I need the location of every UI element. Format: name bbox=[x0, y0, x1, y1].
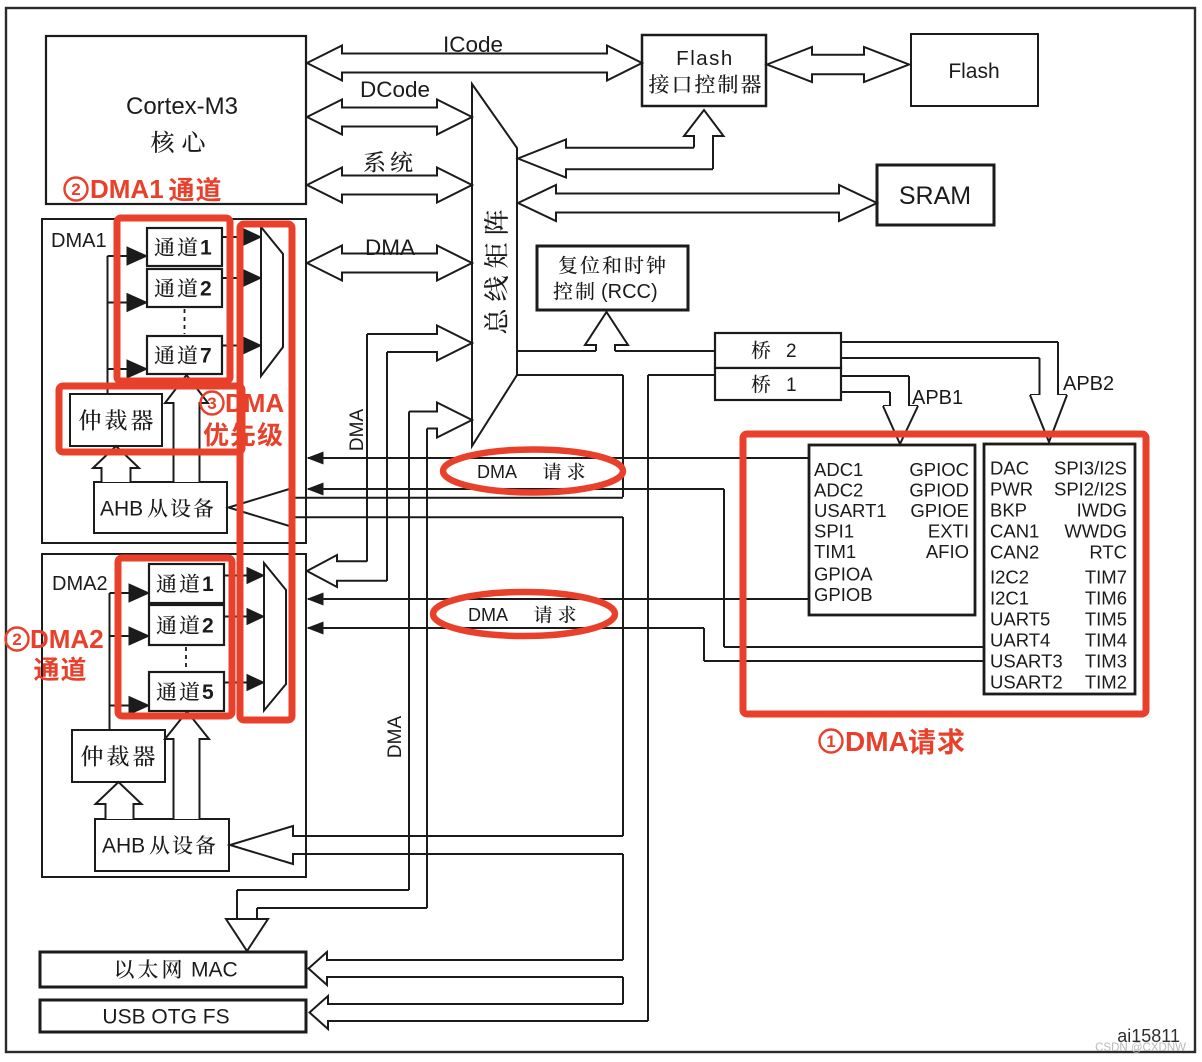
block USB OTG FS bbox=[40, 1000, 306, 1032]
svg-text:DMA2: DMA2 bbox=[30, 624, 104, 654]
dashed line DMA2 channels bbox=[185, 647, 187, 670]
block DMA1 bbox=[42, 219, 306, 543]
bus arrow DMA (DMA1 to bus matrix) bbox=[307, 246, 472, 281]
bridge2 to APB2 lines bbox=[841, 341, 1058, 343]
svg-text:DAC: DAC bbox=[990, 458, 1029, 479]
svg-text:2: 2 bbox=[202, 615, 214, 638]
svg-text:RTC: RTC bbox=[1089, 542, 1127, 563]
svg-text:5: 5 bbox=[202, 681, 214, 704]
svg-text:AFIO: AFIO bbox=[926, 541, 969, 562]
arrow AHB slave DMA2 to arbiter bbox=[96, 782, 142, 819]
svg-text:BKP: BKP bbox=[990, 500, 1027, 521]
svg-text:DMA: DMA bbox=[347, 409, 368, 452]
label bus matrix vertical bbox=[484, 210, 508, 333]
svg-text:DMA1: DMA1 bbox=[90, 174, 164, 204]
svg-text:7: 7 bbox=[200, 345, 212, 368]
bus arrow ICode bbox=[307, 46, 642, 81]
block AHB slave DMA1 bbox=[94, 482, 227, 533]
block DMA1 channel 1 bbox=[147, 228, 222, 266]
DMA1 arbiter trunk and channel arrows bbox=[107, 256, 109, 394]
svg-text:GPIOB: GPIOB bbox=[814, 584, 873, 605]
pipe bus matrix to Flash interface bbox=[518, 140, 713, 178]
pipe bus matrix to bridges bbox=[517, 350, 596, 352]
block DMA2 channel 5 bbox=[149, 672, 224, 711]
red label 2 DMA1 channels bbox=[65, 178, 88, 201]
block DMA1 channel 2 bbox=[147, 269, 222, 307]
svg-text:MAC: MAC bbox=[191, 959, 238, 982]
arrow AHB slave DMA1 to arbiter bbox=[93, 446, 139, 482]
svg-text:AHB: AHB bbox=[102, 835, 145, 858]
arrow into DMA2 right edge bbox=[307, 555, 387, 587]
svg-text:GPIOC: GPIOC bbox=[909, 459, 969, 480]
pipe Ethernet MAC to bus matrix (lower right arrow) bbox=[409, 403, 472, 438]
pipe down from bridge pipe (to AHB slaves, MAC, USB) bbox=[622, 375, 624, 497]
svg-text:UART4: UART4 bbox=[990, 630, 1050, 651]
svg-text:1: 1 bbox=[786, 375, 797, 396]
svg-text:(RCC): (RCC) bbox=[601, 281, 658, 303]
block peripherals APB2 bbox=[984, 444, 1135, 694]
block DMA1 channel 7 bbox=[147, 336, 222, 374]
svg-text:SPI1: SPI1 bbox=[814, 521, 854, 542]
red box DMA priority (muxes) bbox=[240, 224, 292, 720]
svg-text:SRAM: SRAM bbox=[899, 182, 971, 210]
arrow AHB slave DMA1 to channels bbox=[165, 375, 208, 482]
svg-text:2: 2 bbox=[200, 278, 212, 301]
red label 3 DMA priority bbox=[201, 392, 224, 415]
block DMA2 bbox=[42, 554, 306, 877]
block Flash interface controller bbox=[642, 35, 766, 106]
bus matrix trapezoid bbox=[472, 84, 517, 446]
svg-text:2: 2 bbox=[71, 180, 80, 199]
bus arrow System bbox=[307, 168, 472, 203]
arrow into Ethernet MAC right bbox=[309, 952, 624, 985]
svg-text:TIM2: TIM2 bbox=[1085, 672, 1127, 693]
bus arrow DCode bbox=[307, 100, 472, 135]
svg-text:DMA: DMA bbox=[845, 726, 909, 757]
block arbiter DMA2 bbox=[72, 730, 165, 782]
DMA request line 2 (APB2 periph to DMA1) bbox=[308, 488, 724, 490]
arrow head into Ethernet MAC top bbox=[226, 918, 268, 920]
svg-text:APB2: APB2 bbox=[1063, 373, 1114, 395]
DMA request line 4 (APB2 periph to DMA2) bbox=[308, 627, 704, 629]
pipe DMA2 to bus matrix (upper right arrow) bbox=[367, 326, 472, 361]
block DMA2 channel 1 bbox=[149, 564, 224, 603]
svg-text:ADC1: ADC1 bbox=[814, 459, 863, 480]
pipe into AHB slave DMA2 bbox=[230, 826, 623, 864]
svg-text:DCode: DCode bbox=[360, 77, 430, 102]
pipe into AHB slave DMA1 bbox=[229, 489, 624, 527]
svg-text:SPI2/I2S: SPI2/I2S bbox=[1054, 479, 1127, 500]
block Cortex-M3 core bbox=[46, 36, 306, 204]
red label 2 DMA2 channels bbox=[6, 628, 29, 651]
svg-text:Flash: Flash bbox=[948, 60, 999, 83]
svg-text:I2C2: I2C2 bbox=[990, 567, 1029, 588]
red label 1 DMA request bbox=[820, 730, 843, 753]
svg-text:3: 3 bbox=[207, 394, 216, 413]
svg-text:TIM3: TIM3 bbox=[1085, 651, 1127, 672]
DMA2 channel to mux lines bbox=[224, 575, 248, 577]
svg-text:1: 1 bbox=[200, 237, 212, 260]
block peripherals APB1 bbox=[809, 445, 975, 615]
DMA request line 1 (APB1 periph to DMA1) bbox=[308, 457, 808, 459]
svg-text:2: 2 bbox=[12, 630, 21, 649]
DMA request line 3 (APB1 periph to DMA2) bbox=[308, 598, 808, 600]
svg-text:DMA: DMA bbox=[225, 388, 284, 418]
svg-text:IWDG: IWDG bbox=[1077, 500, 1127, 521]
DMA1 mux trapezoid bbox=[261, 227, 283, 376]
arrow into RCC bottom bbox=[585, 312, 628, 351]
svg-text:TIM7: TIM7 bbox=[1085, 567, 1127, 588]
svg-text:I2C1: I2C1 bbox=[990, 588, 1029, 609]
svg-text:TIM4: TIM4 bbox=[1085, 630, 1127, 651]
svg-text:2: 2 bbox=[786, 341, 797, 362]
block Flash bbox=[911, 34, 1038, 106]
block SRAM bbox=[877, 165, 994, 225]
svg-text:DMA: DMA bbox=[468, 605, 508, 625]
svg-text:DMA2: DMA2 bbox=[52, 573, 108, 595]
svg-text:GPIOA: GPIOA bbox=[814, 564, 873, 585]
svg-text:SPI3/I2S: SPI3/I2S bbox=[1054, 458, 1127, 479]
DMA2 mux trapezoid bbox=[264, 563, 286, 711]
svg-text:CSDN @CXDNW: CSDN @CXDNW bbox=[1095, 1042, 1186, 1054]
bus arrow Flash interface to Flash bbox=[767, 47, 909, 82]
dashed line DMA1 channels bbox=[184, 309, 186, 334]
svg-text:Flash: Flash bbox=[676, 47, 734, 70]
svg-text:APB1: APB1 bbox=[912, 387, 963, 409]
block arbiter DMA1 bbox=[70, 394, 162, 446]
DMA2 arbiter trunk and channel arrows bbox=[109, 593, 111, 730]
svg-text:USART3: USART3 bbox=[990, 651, 1063, 672]
svg-text:AHB: AHB bbox=[100, 498, 143, 521]
svg-text:1: 1 bbox=[202, 573, 214, 596]
svg-text:TIM6: TIM6 bbox=[1085, 588, 1127, 609]
bus arrow SRAM bbox=[518, 185, 877, 221]
svg-text:USART1: USART1 bbox=[814, 500, 887, 521]
svg-text:CAN2: CAN2 bbox=[990, 542, 1039, 563]
svg-text:GPIOD: GPIOD bbox=[909, 480, 969, 501]
svg-text:USB OTG FS: USB OTG FS bbox=[102, 1006, 229, 1029]
svg-text:1: 1 bbox=[826, 732, 835, 751]
svg-text:DMA: DMA bbox=[477, 462, 517, 482]
svg-text:UART5: UART5 bbox=[990, 609, 1050, 630]
arrow APB2 into peripherals bbox=[1058, 394, 1067, 396]
block bridge1 bbox=[715, 368, 841, 400]
block bridge2 bbox=[715, 333, 841, 368]
svg-text:DMA: DMA bbox=[385, 716, 406, 759]
svg-text:ICode: ICode bbox=[443, 32, 503, 57]
svg-text:EXTI: EXTI bbox=[928, 521, 969, 542]
svg-text:TIM1: TIM1 bbox=[814, 541, 856, 562]
block RCC bbox=[537, 246, 688, 310]
red oval DMA request 2 bbox=[433, 592, 615, 636]
svg-text:PWR: PWR bbox=[990, 479, 1033, 500]
arrow AHB slave DMA2 to channels bbox=[165, 712, 209, 820]
svg-text:TIM5: TIM5 bbox=[1085, 609, 1127, 630]
red box arbiter DMA1 bbox=[59, 386, 242, 452]
red box DMA2 channels bbox=[118, 558, 232, 716]
svg-text:GPIOE: GPIOE bbox=[910, 500, 969, 521]
arrow head into Flash interface bottom bbox=[684, 110, 724, 169]
red box DMA request peripherals bbox=[743, 434, 1146, 714]
arrow into USB OTG FS right bbox=[310, 996, 649, 1029]
svg-text:ADC2: ADC2 bbox=[814, 480, 863, 501]
svg-text:WWDG: WWDG bbox=[1064, 521, 1127, 542]
svg-text:DMA1: DMA1 bbox=[51, 230, 107, 252]
red box DMA1 channels bbox=[117, 218, 230, 381]
red oval DMA request 1 bbox=[443, 450, 623, 493]
svg-text:USART2: USART2 bbox=[990, 672, 1063, 693]
block Ethernet MAC bbox=[40, 952, 306, 987]
DMA1 channel to mux lines bbox=[222, 236, 245, 238]
block AHB slave DMA2 bbox=[95, 819, 229, 871]
svg-text:CAN1: CAN1 bbox=[990, 521, 1039, 542]
bridge1 to APB1 lines bbox=[841, 375, 909, 377]
svg-text:DMA: DMA bbox=[365, 235, 415, 260]
svg-text:Cortex-M3: Cortex-M3 bbox=[126, 93, 238, 120]
arrow APB1 into peripherals bbox=[909, 405, 918, 407]
block DMA2 channel 2 bbox=[149, 605, 224, 645]
